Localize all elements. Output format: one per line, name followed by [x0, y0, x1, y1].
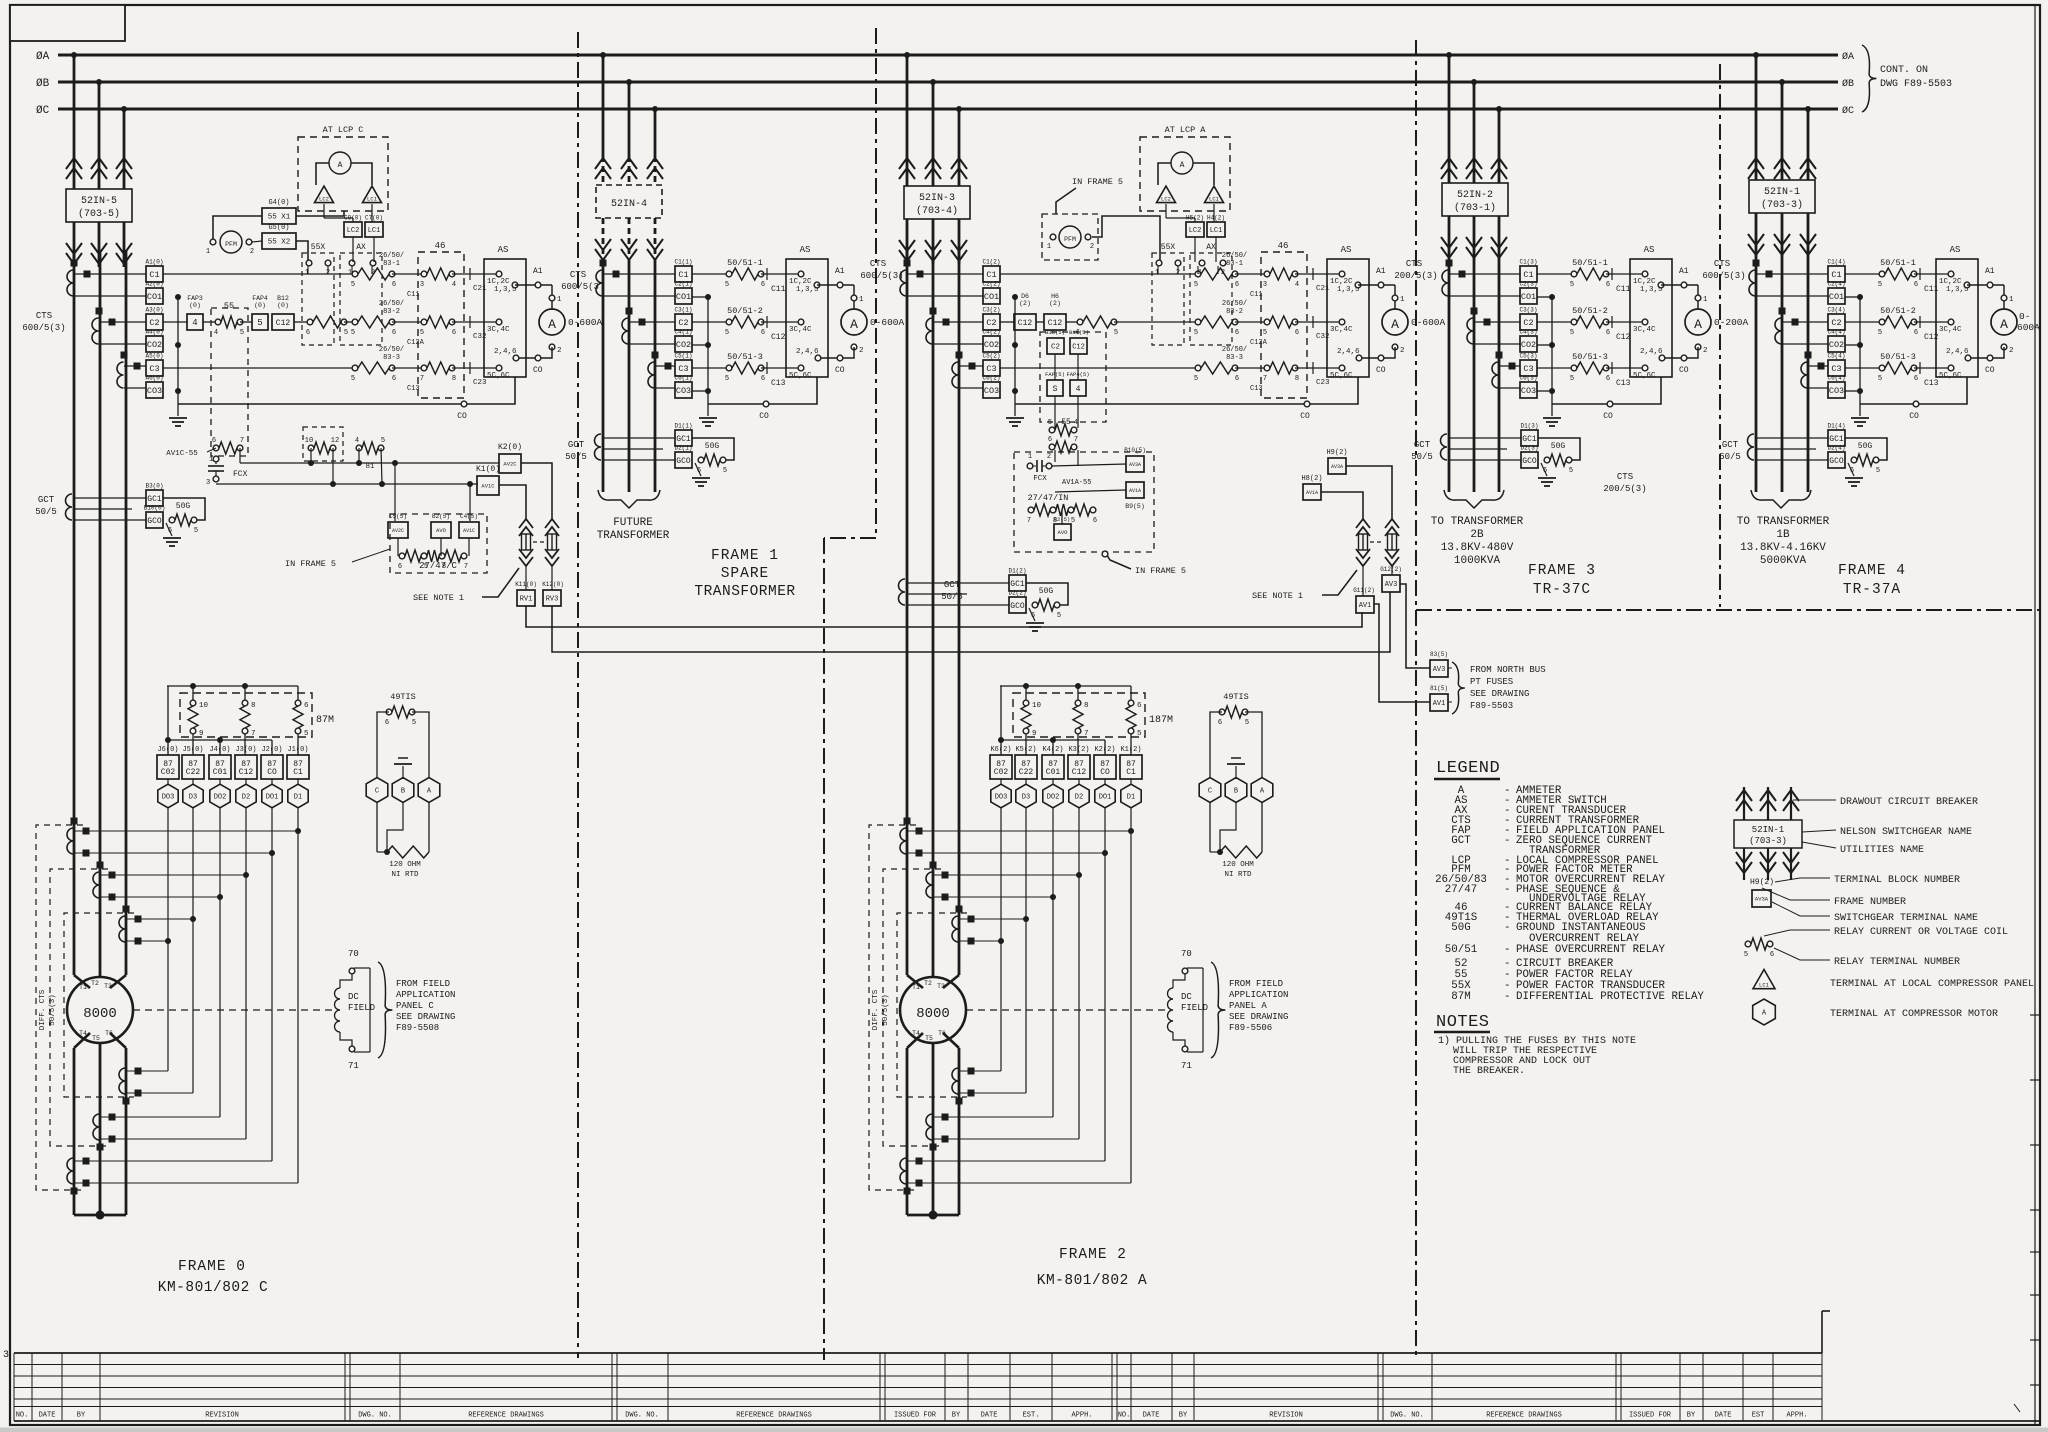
svg-text:A: A: [548, 317, 556, 332]
svg-text:J6(0): J6(0): [157, 746, 178, 754]
svg-text:1: 1: [1028, 453, 1032, 461]
svg-text:SEE DRAWING: SEE DRAWING: [1470, 689, 1529, 699]
svg-text:3C,4C: 3C,4C: [1939, 326, 1962, 334]
terminal 81(5) AV1: [1430, 694, 1448, 711]
svg-text:C2: C2: [1831, 318, 1841, 328]
svg-text:600/5(3): 600/5(3): [22, 323, 65, 333]
motor overcurrent relay 26/50/83-2 coil: [1195, 319, 1201, 325]
svg-text:DWG. NO.: DWG. NO.: [1390, 1412, 1424, 1420]
svg-text:-: -: [1504, 991, 1510, 1003]
CT secondary tap C1(1): [675, 266, 692, 282]
svg-text:FAP4: FAP4: [252, 295, 268, 302]
ground: [166, 523, 172, 536]
svg-text:87M: 87M: [316, 715, 334, 726]
continuation note: [1862, 45, 1876, 112]
leader frame number: [1762, 888, 1830, 900]
svg-text:50/5: 50/5: [35, 507, 57, 517]
svg-text:C1: C1: [1126, 768, 1136, 777]
wire CT to taps: [907, 273, 983, 275]
svg-text:A1: A1: [1376, 267, 1386, 276]
terminal LC1 triangle: [1205, 186, 1224, 203]
svg-text:C3: C3: [1523, 364, 1533, 374]
svg-text:CO: CO: [267, 768, 277, 777]
svg-text:KM-801/802 C: KM-801/802 C: [158, 1280, 268, 1296]
svg-text:50G: 50G: [1551, 442, 1566, 451]
relay resistor chain 6-5-8-7: [399, 553, 405, 559]
capacitor tick C13: [1606, 367, 1645, 369]
terminal enclosure B12(5) B11(5): [1040, 332, 1106, 422]
leader switchgear terminal name: [1772, 902, 1830, 916]
svg-text:GCO: GCO: [676, 457, 691, 466]
power factor transducer 55X enclosure: [1152, 253, 1184, 345]
overcurrent relay 50/51-2 coil: [692, 321, 729, 323]
current transformer CTS: [952, 362, 958, 388]
svg-text:1: 1: [1400, 296, 1405, 304]
svg-text:6: 6: [1235, 329, 1239, 337]
svg-text:DIFF. CTS: DIFF. CTS: [39, 989, 47, 1030]
svg-text:GCT: GCT: [1722, 440, 1739, 450]
svg-text:UTILITIES NAME: UTILITIES NAME: [1840, 845, 1924, 856]
svg-text:4: 4: [192, 318, 197, 328]
phase sequence undervoltage relay 27/47/C enclosure: [390, 514, 487, 573]
svg-text:EST.: EST.: [1023, 1412, 1040, 1420]
capacitor tick C21: [1295, 273, 1342, 275]
svg-text:A: A: [850, 317, 858, 332]
svg-text:D1(3): D1(3): [1520, 423, 1538, 430]
svg-text:GCO: GCO: [1010, 602, 1025, 611]
ammeter switch AS: [1327, 259, 1369, 377]
svg-text:5: 5: [381, 437, 385, 445]
svg-text:9: 9: [1032, 730, 1037, 738]
svg-text:5: 5: [1194, 375, 1198, 383]
svg-text:AV1A: AV1A: [1306, 490, 1318, 496]
svg-text:REVISION: REVISION: [205, 1412, 239, 1420]
leader nelson switchgear name: [1802, 830, 1836, 832]
svg-text:C13: C13: [1616, 379, 1631, 388]
diff CT dashed zones: [869, 825, 916, 1190]
svg-text:D3: D3: [189, 794, 197, 802]
svg-text:AS: AS: [800, 245, 811, 255]
CT secondary tap C3(0): [146, 360, 163, 376]
svg-text:ØC: ØC: [36, 105, 50, 117]
drawout circuit breaker 52IN-3: [904, 52, 910, 58]
svg-text:K3(2): K3(2): [1068, 746, 1089, 754]
svg-text:APPH.: APPH.: [1071, 1412, 1092, 1420]
upper differential CTs: [67, 828, 74, 854]
svg-text:H6: H6: [1051, 293, 1059, 300]
wires to north bus terminals: [1400, 584, 1430, 668]
svg-text:NO.: NO.: [16, 1412, 29, 1420]
svg-text:70: 70: [1181, 949, 1192, 959]
svg-text:AVO: AVO: [436, 527, 447, 534]
svg-text:G4(0): G4(0): [268, 199, 289, 207]
svg-text:7: 7: [464, 563, 468, 571]
svg-text:CO1: CO1: [676, 292, 691, 302]
svg-text:GC1: GC1: [1829, 435, 1844, 444]
svg-text:6: 6: [1770, 951, 1774, 959]
svg-text:CO1: CO1: [147, 292, 162, 302]
svg-text:C12A: C12A: [407, 339, 425, 347]
svg-text:REFERENCE DRAWINGS: REFERENCE DRAWINGS: [1486, 1412, 1562, 1420]
svg-text:55X: 55X: [1161, 243, 1176, 252]
svg-text:600/5(3): 600/5(3): [860, 271, 903, 281]
bus phase A: [58, 54, 1838, 57]
svg-text:THE BREAKER.: THE BREAKER.: [1453, 1066, 1525, 1077]
svg-text:REFERENCE DRAWINGS: REFERENCE DRAWINGS: [736, 1412, 812, 1420]
svg-text:NO.: NO.: [1118, 1412, 1131, 1420]
svg-text:1: 1: [206, 248, 210, 256]
svg-text:LC1: LC1: [1759, 981, 1770, 988]
svg-text:50/51-2: 50/51-2: [1572, 306, 1608, 316]
svg-text:C5(2): C5(2): [982, 353, 1000, 360]
svg-text:50/51: 50/51: [1445, 944, 1477, 956]
svg-text:B11(5): B11(5): [1069, 329, 1089, 336]
svg-text:CO: CO: [1679, 366, 1689, 375]
svg-text:87M: 87M: [1451, 991, 1470, 1003]
svg-text:C23: C23: [473, 379, 487, 387]
svg-text:F89-5503: F89-5503: [1470, 701, 1513, 711]
svg-text:5: 5: [1114, 329, 1118, 337]
svg-text:RV1: RV1: [520, 595, 533, 603]
CT secondary tap CO1(4): [1828, 288, 1845, 304]
svg-text:H9(2): H9(2): [1750, 878, 1774, 887]
svg-text:C3: C3: [678, 364, 688, 374]
svg-text:5C,6C: 5C,6C: [1633, 372, 1656, 380]
terminal block H5(2) LC2: [1186, 222, 1204, 237]
svg-text:71: 71: [348, 1061, 359, 1071]
svg-text:3C,4C: 3C,4C: [1633, 326, 1656, 334]
svg-text:C5(3): C5(3): [1519, 353, 1537, 360]
svg-text:FCX: FCX: [1033, 475, 1047, 483]
svg-text:B2(5): B2(5): [432, 513, 450, 520]
svg-text:5: 5: [424, 563, 428, 571]
wire row to K1: [216, 483, 478, 485]
svg-text:C01: C01: [213, 768, 228, 777]
wire GC1 loop: [163, 498, 205, 520]
RTD shield cap: [1235, 766, 1237, 779]
CT secondary tap C2(1): [675, 314, 692, 330]
zero sequence CT GCT 50/5: [595, 434, 602, 460]
svg-text:DRAWOUT CIRCUIT BREAKER: DRAWOUT CIRCUIT BREAKER: [1840, 797, 1978, 808]
terminal LC2 triangle: [315, 186, 334, 203]
svg-text:5: 5: [351, 281, 355, 289]
svg-text:CO3: CO3: [984, 386, 999, 396]
terminal G11(2) AV1: [1356, 596, 1374, 613]
field note: [1211, 962, 1225, 1058]
zero sequence CT GCT 50/5: [899, 579, 906, 605]
svg-text:TRANSFORMER: TRANSFORMER: [694, 584, 795, 600]
svg-text:K6(2): K6(2): [990, 746, 1011, 754]
svg-text:PANEL C: PANEL C: [396, 1001, 434, 1011]
svg-text:J5(0): J5(0): [182, 746, 203, 754]
svg-text:FRAME 2: FRAME 2: [1059, 1247, 1127, 1263]
svg-text:AV3A: AV3A: [1755, 895, 1769, 902]
svg-text:6: 6: [392, 281, 396, 289]
terminal at LCP sample: [1753, 970, 1775, 989]
svg-text:CO: CO: [1985, 366, 1995, 375]
svg-text:C11: C11: [771, 285, 786, 294]
svg-text:T2: T2: [91, 980, 99, 987]
svg-text:CO2: CO2: [1521, 340, 1536, 350]
svg-text:71: 71: [1181, 1061, 1192, 1071]
current balance relay 46 contact 7-8: [1235, 367, 1267, 369]
panel ammeter A: [329, 152, 351, 174]
leader drawout circuit breaker: [1793, 799, 1836, 801]
svg-text:C1: C1: [149, 270, 159, 280]
svg-text:50/51-1: 50/51-1: [1572, 258, 1608, 268]
svg-text:FAP3: FAP3: [187, 295, 203, 302]
differential CT wires vertical: [1000, 808, 1002, 1071]
ground: [1541, 463, 1547, 476]
svg-text:5: 5: [257, 318, 262, 328]
svg-text:CO: CO: [1603, 412, 1613, 421]
CT secondary tap C3(4): [1828, 360, 1845, 376]
svg-text:C3: C3: [149, 364, 159, 374]
svg-text:70: 70: [348, 949, 359, 959]
current transformer CTS: [622, 318, 628, 344]
svg-text:DWG. NO.: DWG. NO.: [625, 1412, 659, 1420]
capacitor FCX: [213, 456, 219, 462]
svg-text:FRAME 3: FRAME 3: [1528, 563, 1596, 579]
current balance relay 46 contact 5-6: [1235, 321, 1267, 323]
relay 55 lower contacts 6-7: [213, 445, 219, 451]
svg-text:REFERENCE DRAWINGS: REFERENCE DRAWINGS: [468, 1412, 544, 1420]
svg-text:(0): (0): [277, 302, 289, 309]
svg-text:A1: A1: [1679, 267, 1689, 276]
svg-text:LC1: LC1: [368, 227, 381, 235]
svg-text:LC1: LC1: [367, 196, 378, 203]
svg-text:DO3: DO3: [995, 794, 1008, 802]
svg-text:83-2: 83-2: [383, 308, 400, 316]
svg-text:DO3: DO3: [162, 794, 175, 802]
terminal C12: [272, 314, 294, 330]
svg-text:3: 3: [420, 281, 424, 289]
ammeter A: [2003, 285, 2005, 309]
svg-text:GCO: GCO: [147, 517, 162, 526]
svg-text:CTS: CTS: [1406, 259, 1422, 269]
RTD terminals C B A: [366, 778, 388, 803]
svg-text:C12A: C12A: [1250, 339, 1268, 347]
svg-text:K1(0): K1(0): [476, 465, 500, 474]
svg-text:50G: 50G: [1858, 442, 1873, 451]
svg-text:NELSON SWITCHGEAR NAME: NELSON SWITCHGEAR NAME: [1840, 827, 1972, 838]
svg-text:G5(0): G5(0): [268, 224, 289, 232]
svg-text:6: 6: [1914, 375, 1918, 383]
svg-text:2,4,6: 2,4,6: [1640, 348, 1663, 356]
CT secondary tap CO2(2): [983, 336, 1000, 352]
svg-text:B9(5): B9(5): [1125, 503, 1145, 510]
GCT tap GC1: [1828, 430, 1845, 446]
svg-text:C13: C13: [771, 379, 786, 388]
svg-text:AT LCP C: AT LCP C: [323, 125, 364, 135]
svg-text:A: A: [1180, 161, 1185, 170]
svg-text:5: 5: [725, 375, 729, 383]
svg-text:5C,6C: 5C,6C: [1330, 372, 1353, 380]
relay coil sample: [1745, 941, 1751, 947]
svg-text:0-600A: 0-600A: [568, 317, 603, 328]
wire CT to taps: [1449, 273, 1520, 275]
current transformer CTS: [1442, 270, 1449, 296]
wires: [1052, 464, 1126, 466]
svg-text:5: 5: [420, 329, 424, 337]
svg-text:AV1A-55: AV1A-55: [1062, 479, 1091, 487]
svg-text:50/51-3: 50/51-3: [1572, 352, 1608, 362]
wires PFM to switches: [213, 216, 262, 239]
svg-text:AS: AS: [498, 245, 509, 255]
svg-text:CONT. ON: CONT. ON: [1880, 65, 1928, 76]
svg-text:-: -: [1504, 884, 1510, 896]
svg-text:AV3A: AV3A: [1331, 464, 1343, 470]
87M operating coils: [167, 685, 298, 687]
svg-text:83-1: 83-1: [1226, 260, 1243, 268]
svg-text:FUTURE: FUTURE: [613, 517, 653, 529]
svg-text:LEGEND: LEGEND: [1436, 759, 1500, 778]
svg-text:TERMINAL AT COMPRESSOR MOTOR: TERMINAL AT COMPRESSOR MOTOR: [1830, 1009, 1998, 1020]
capacitor tick C32: [452, 321, 499, 323]
wire CT to taps: [1782, 321, 1828, 323]
svg-text:(703-4): (703-4): [916, 205, 958, 217]
svg-text:C7(0): C7(0): [365, 215, 383, 222]
svg-text:4: 4: [1076, 385, 1081, 394]
svg-text:1C,2C: 1C,2C: [789, 278, 812, 286]
FAP contacts S and 4: [1047, 380, 1063, 396]
svg-text:6: 6: [398, 563, 402, 571]
CO1-CO3 common vertical: [1845, 296, 1860, 298]
ground: [695, 463, 701, 476]
svg-text:TO TRANSFORMER: TO TRANSFORMER: [1431, 516, 1524, 528]
svg-text:7: 7: [420, 375, 424, 383]
svg-text:83-3: 83-3: [383, 354, 400, 362]
svg-text:K4(2): K4(2): [1042, 746, 1063, 754]
svg-text:5C,6C: 5C,6C: [789, 372, 812, 380]
CO common wire: [705, 294, 711, 300]
svg-text:DATE: DATE: [39, 1412, 56, 1420]
svg-text:C02: C02: [161, 768, 176, 777]
svg-text:A1: A1: [835, 267, 845, 276]
svg-text:C2: C2: [1051, 344, 1060, 352]
svg-text:13.8KV-480V: 13.8KV-480V: [1441, 542, 1514, 554]
current transformer CTS: [1775, 318, 1781, 344]
svg-text:C4(4): C4(4): [1827, 329, 1845, 336]
capacitor tick C11: [1914, 273, 1951, 275]
svg-text:187M: 187M: [1149, 715, 1173, 726]
svg-text:APPLICATION: APPLICATION: [1229, 990, 1288, 1000]
svg-text:AV1A: AV1A: [1129, 488, 1141, 494]
svg-text:C12: C12: [276, 319, 291, 328]
svg-text:50/5: 50/5: [565, 452, 587, 462]
svg-text:1000KVA: 1000KVA: [1454, 555, 1501, 567]
svg-text:PFM: PFM: [225, 241, 237, 248]
svg-text:A1(0): A1(0): [145, 259, 163, 266]
svg-text:6: 6: [1914, 281, 1918, 289]
svg-text:4: 4: [1074, 419, 1078, 427]
svg-text:C3(1): C3(1): [674, 307, 692, 314]
CT secondary tap CO3(2): [983, 382, 1000, 398]
svg-text:(2): (2): [1019, 300, 1031, 307]
svg-text:AS: AS: [1950, 245, 1961, 255]
svg-text:50/51-2: 50/51-2: [727, 306, 763, 316]
svg-text:C1(4): C1(4): [1827, 259, 1845, 266]
GCT tap GC1: [1009, 575, 1026, 591]
svg-text:EST: EST: [1752, 1412, 1765, 1420]
svg-text:8: 8: [1084, 702, 1089, 710]
svg-text:DWG. NO.: DWG. NO.: [358, 1412, 392, 1420]
current balance relay 46 contact 5-6: [392, 321, 424, 323]
svg-text:C1: C1: [1831, 270, 1841, 280]
svg-text:C5(4): C5(4): [1827, 353, 1845, 360]
wire CT to taps: [655, 365, 675, 367]
separator below frames 3 and 4: [1416, 609, 2040, 611]
svg-text:DIFF. CTS: DIFF. CTS: [872, 989, 880, 1030]
capacitor tick C12: [1914, 321, 1951, 323]
svg-text:B: B: [1234, 788, 1238, 796]
frame 0 wires C1 C2 C3: [163, 273, 355, 275]
svg-text:C2: C2: [678, 318, 688, 328]
svg-text:D2(2): D2(2): [1008, 590, 1026, 597]
GCT tap GC1: [146, 490, 163, 506]
svg-text:7: 7: [240, 437, 244, 445]
svg-text:AV1: AV1: [1359, 602, 1372, 610]
svg-text:1: 1: [859, 296, 864, 304]
svg-text:FROM NORTH BUS: FROM NORTH BUS: [1470, 665, 1546, 675]
svg-text:4: 4: [1295, 281, 1299, 289]
wire CT to taps: [124, 365, 146, 367]
svg-text:6: 6: [1218, 719, 1222, 727]
svg-text:9: 9: [199, 730, 204, 738]
terminal 83(5) AV3: [1430, 660, 1448, 677]
svg-text:APPH.: APPH.: [1786, 1412, 1807, 1420]
svg-text:C12: C12: [1018, 319, 1033, 328]
svg-text:C4(1): C4(1): [674, 329, 692, 336]
wire CT to taps: [933, 321, 983, 323]
current balance relay 46 contact 3-4: [392, 273, 424, 275]
svg-text:C2: C2: [986, 318, 996, 328]
CT secondary tap CO2(3): [1520, 336, 1537, 352]
ground: [1029, 608, 1035, 621]
svg-text:52IN-2: 52IN-2: [1457, 190, 1493, 201]
svg-text:CO: CO: [759, 412, 769, 421]
svg-text:FCX: FCX: [233, 470, 248, 479]
svg-text:5: 5: [1263, 329, 1267, 337]
svg-text:C3(3): C3(3): [1519, 307, 1537, 314]
svg-text:C1(1): C1(1): [674, 259, 692, 266]
svg-text:CO1: CO1: [1829, 292, 1844, 302]
svg-text:3: 3: [1263, 281, 1267, 289]
svg-text:200/5(3): 200/5(3): [1603, 484, 1646, 494]
svg-text:LC2: LC2: [1161, 196, 1171, 203]
svg-text:SWITCHGEAR TERMINAL NAME: SWITCHGEAR TERMINAL NAME: [1834, 913, 1978, 924]
svg-text:SEE NOTE 1: SEE NOTE 1: [413, 593, 464, 603]
CT secondary tap CO3(1): [675, 382, 692, 398]
svg-text:6: 6: [1606, 375, 1610, 383]
current transformer CTS: [648, 362, 654, 388]
svg-text:C12: C12: [239, 768, 254, 777]
svg-text:1: 1: [2009, 296, 2014, 304]
svg-text:DO1: DO1: [266, 794, 279, 802]
wire AS to A1: [1661, 284, 1698, 286]
svg-text:50/51-3: 50/51-3: [727, 352, 763, 362]
zero sequence CT GCT 50/5: [1441, 434, 1448, 460]
svg-text:D3: D3: [1022, 794, 1030, 802]
svg-text:H4(2): H4(2): [1207, 215, 1225, 222]
wire K1 to fuse RV1: [499, 485, 526, 519]
svg-text:AX: AX: [356, 243, 366, 252]
svg-text:C3(4): C3(4): [1827, 307, 1845, 314]
terminal C4(5) AV1C: [459, 522, 479, 538]
svg-text:(703-5): (703-5): [78, 208, 120, 220]
svg-text:C12: C12: [1072, 343, 1085, 351]
svg-text:(2): (2): [1049, 300, 1061, 307]
